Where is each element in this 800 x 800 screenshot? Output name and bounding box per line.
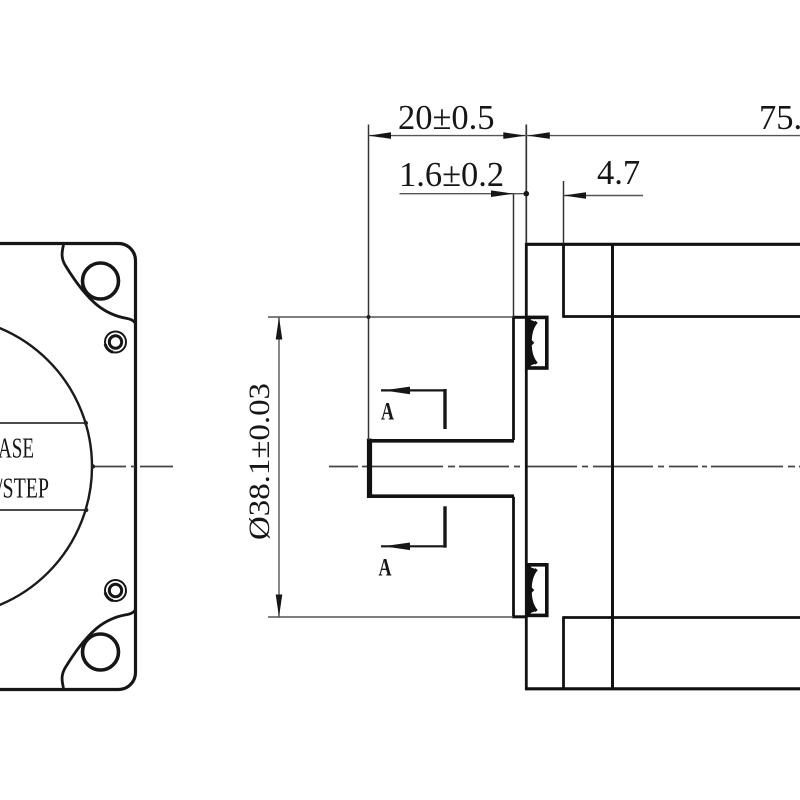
section A-A: upper cutting line [381,389,445,391]
dimension 1.6±0.2: arrow [491,190,514,197]
side view: pilot boss bottom edge [512,615,526,618]
dimension 75.: arrow [527,132,550,139]
side view: pilot boss front face [512,316,515,440]
front view: mounting hole top [83,263,119,299]
side view: end-cap boundary vertical [611,243,614,690]
dimension Ø38.1: extension line top [268,316,513,318]
dimension 20±0.5: extension line left [368,125,370,441]
front view: screw hole bottom (small) [105,580,126,601]
side view: body inner bottom edge [564,616,800,619]
front view: label band top line [0,422,86,424]
side view: shaft [367,439,372,498]
dimension 20±0.5 / 75.: extension line at flange [525,125,527,244]
svg-text:ASE: ASE [0,434,34,465]
front view: label band bottom line [0,509,86,511]
front view: corner ear contour top-right [62,245,135,323]
svg-text:75.: 75. [759,99,800,137]
side view: body bottom edge [525,687,800,690]
dimension 1.6±0.2: junction dot [524,191,530,197]
dimension 4.7: extension line [563,181,565,244]
dimension 20±0.5: arrows [369,132,392,139]
side view: pilot boss top edge [512,316,526,319]
front view: pilot circle arc [0,317,92,617]
front view: mounting hole bottom [83,634,119,670]
side view: center line [329,466,800,468]
svg-text:1.6±0.2: 1.6±0.2 [399,156,504,194]
dimension line top (20 and 75) [369,135,800,137]
side view: flange mounting face [525,243,528,690]
svg-text:A: A [379,555,392,582]
side view: screw top [528,317,546,368]
svg-text:4.7: 4.7 [597,154,640,192]
dimension Ø38.1: dimension line [278,317,280,617]
front view: screw hole top (small) [105,332,126,353]
front view: center line [93,466,174,468]
side view: end-cap edge verticals [562,243,565,318]
dimension 1.6±0.2: leader line [400,193,527,195]
side view: body top edge [525,243,800,246]
svg-text:20±0.5: 20±0.5 [398,99,495,137]
front view: mounting plate outline [0,244,136,690]
svg-text:A: A [381,399,394,426]
dimension 1.6±0.2: extension line (boss face) [513,194,515,317]
side view: screw bottom [528,565,546,616]
dimension Ø38.1: extension line bottom [268,616,513,618]
dimension Ø38.1: arrows [276,317,283,340]
dimension 4.7: arrow [564,192,587,199]
svg-text:Ø38.1±0.03: Ø38.1±0.03 [243,383,276,540]
section A-A: lower cutting line [381,545,445,547]
dimension 4.7: dimension line [564,195,644,197]
svg-text:/STEP: /STEP [0,474,49,505]
front view: corner ear contour bottom-right [62,610,135,688]
side view: body inner top edge [564,315,800,318]
